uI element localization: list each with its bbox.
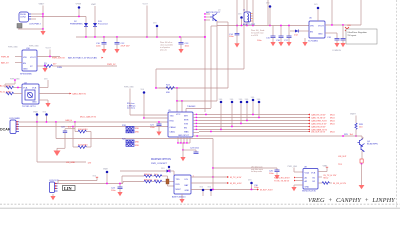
junction	[241, 25, 243, 27]
wire long lower bus	[56, 138, 213, 140]
capacitor C15	[257, 26, 276, 47]
svg-text:VCB: VCB	[311, 173, 316, 175]
wire	[360, 0, 362, 25]
svg-text:VCA: VCA	[23, 87, 28, 90]
svg-text:VREG + CANPHY + LINPHY: VREG + CANPHY + LINPHY	[308, 197, 396, 204]
svg-text:VBAT: VBAT	[103, 168, 109, 171]
opto U4	[22, 82, 39, 108]
U8 ground	[291, 185, 303, 191]
net label M_SLP	[257, 189, 259, 191]
svg-text:(see docs): (see docs)	[127, 108, 135, 110]
capacitor C16	[276, 25, 284, 47]
svg-text:VIN: VIN	[23, 57, 27, 59]
svg-text:LIN_GND: LIN_GND	[66, 162, 76, 164]
junction	[42, 13, 44, 15]
diode D13	[120, 163, 174, 175]
junction	[55, 121, 57, 123]
connector J1	[19, 12, 42, 26]
wire	[210, 26, 212, 108]
wire + resistor R33 + net label	[318, 182, 347, 185]
wire	[236, 0, 238, 26]
wire	[90, 132, 92, 148]
capacitor C24	[111, 183, 123, 197]
svg-text:COMMON: COMMON	[332, 50, 341, 52]
svg-text:GND: GND	[23, 69, 28, 71]
svg-text:GND: GND	[318, 34, 323, 36]
U7 ground	[179, 194, 184, 203]
wire	[31, 16, 43, 18]
diode D2	[70, 17, 88, 38]
svg-text:1/8W: 1/8W	[57, 67, 62, 69]
wire to Q4	[193, 135, 362, 137]
power symbol VS	[238, 14, 243, 26]
wire CAN_H	[19, 121, 168, 123]
junction on bundle	[205, 114, 207, 116]
svg-text:CAN_EN_M 5V: CAN_EN_M 5V	[311, 126, 326, 129]
wire	[252, 0, 254, 26]
wire	[37, 161, 86, 163]
svg-text:PWR_GND: PWR_GND	[124, 87, 134, 89]
node 5V0 label	[39, 78, 48, 87]
svg-text:VBATT: VBATT	[350, 112, 357, 115]
connector J3	[9, 117, 20, 134]
svg-text:5V0: 5V0	[238, 14, 241, 16]
svg-text:M_TX_H 5V: M_TX_H 5V	[230, 177, 242, 179]
junction	[74, 121, 76, 123]
resistor R36	[154, 179, 174, 183]
wire row2	[123, 181, 144, 183]
svg-text:LIN: LIN	[185, 179, 189, 181]
junction	[143, 117, 145, 119]
resistor R2 + net label	[0, 85, 22, 89]
wire VCCB up	[318, 164, 328, 171]
wire pin	[15, 62, 22, 64]
svg-text:5V0: 5V0	[219, 99, 222, 101]
svg-text:5V0: 5V0	[314, 4, 317, 6]
junction	[146, 36, 148, 38]
wire	[176, 88, 178, 101]
junction	[342, 24, 344, 26]
svg-text:to all ICB: to all ICB	[251, 34, 259, 37]
wire CAN_L	[19, 126, 168, 128]
svg-text:VOUT: VOUT	[30, 57, 37, 59]
power symbol VREG	[314, 4, 319, 21]
resistor R3 + net label	[0, 91, 22, 94]
op-amp U6 regulator	[308, 18, 325, 43]
svg-text:VCB: VCB	[32, 88, 37, 90]
wire	[42, 6, 44, 30]
junction	[246, 25, 248, 27]
wire bus2 right segment	[325, 24, 361, 26]
svg-text:5V0: 5V0	[257, 99, 260, 101]
svg-text:CANL: CANL	[170, 131, 176, 134]
MBR option jumpers	[122, 125, 140, 147]
svg-text:LIN: LIN	[64, 186, 73, 191]
split termination: resistor R17	[73, 127, 91, 149]
junction	[94, 36, 96, 38]
svg-text:5V0: 5V0	[141, 89, 144, 91]
svg-text:BAT_5V: BAT_5V	[1, 62, 9, 65]
junction	[155, 87, 157, 89]
capacitor C26	[269, 168, 280, 179]
wire	[227, 22, 229, 88]
svg-text:RX IN_RX_M 5V: RX IN_RX_M 5V	[274, 177, 290, 179]
svg-text:5V0: 5V0	[153, 23, 156, 25]
junction	[42, 16, 44, 18]
svg-text:47uF 25V: 47uF 25V	[121, 45, 131, 47]
inductor L1	[243, 0, 256, 26]
svg-text:CAN_RX_M 5V: CAN_RX_M 5V	[311, 114, 326, 117]
junction	[46, 121, 48, 123]
junction	[204, 36, 206, 38]
junction	[361, 163, 363, 165]
connector J2 LIN	[49, 180, 60, 193]
junction	[103, 36, 105, 38]
power symbol VBAT lin	[103, 168, 109, 185]
svg-text:Ultra/Drive Regulator: Ultra/Drive Regulator	[348, 31, 368, 34]
svg-text:CON 9WAY: CON 9WAY	[9, 117, 20, 120]
svg-text:FREEWHEEL: FREEWHEEL	[70, 23, 84, 25]
power symbol VBAT	[33, 111, 39, 123]
junction	[179, 36, 181, 38]
wire	[186, 108, 211, 110]
wire to gnd bus	[36, 122, 38, 162]
power dots bottom	[200, 187, 213, 197]
resistor R32 vertical	[162, 176, 174, 186]
svg-text:PWR_GND: PWR_GND	[288, 166, 298, 168]
LIN transceiver U7	[172, 175, 191, 199]
capacitor C21 on IC left	[150, 121, 162, 136]
svg-text:5V0: 5V0	[239, 99, 242, 101]
node PWR_GND mid	[124, 87, 134, 116]
junction	[42, 28, 44, 30]
svg-text:MASTER OPTION: MASTER OPTION	[151, 158, 171, 161]
svg-text:MCU: MCU	[330, 115, 335, 117]
no-fit cross	[345, 27, 349, 31]
svg-text:DCAR: DCAR	[0, 128, 11, 132]
svg-text:5V0: 5V0	[200, 187, 203, 189]
junction	[49, 56, 51, 58]
wire bus2 left segment	[211, 25, 217, 27]
power symbol VPWR	[76, 4, 82, 17]
wire	[18, 28, 43, 30]
svg-text:TXD: TXD	[176, 179, 181, 181]
op-amp U10 regulator	[20, 48, 37, 76]
svg-text:M_SLP_N 5V: M_SLP_N 5V	[260, 190, 273, 192]
svg-text:IN_RX_H 12V: IN_RX_H 12V	[333, 183, 347, 185]
svg-text:TXD: TXD	[170, 116, 175, 118]
resistor R31	[154, 174, 162, 178]
svg-text:5V layout: 5V layout	[348, 34, 357, 37]
capacitor C18	[325, 33, 341, 52]
power symbol 5V0	[153, 23, 158, 38]
svg-text:BC847BPN: BC847BPN	[367, 143, 378, 145]
svg-text:GND SPLIT: GND SPLIT	[178, 135, 190, 137]
power symbol 5V mid	[141, 89, 146, 118]
wire	[267, 0, 269, 26]
junction	[44, 65, 46, 67]
node PWR_GND label	[5, 78, 20, 87]
svg-text:pins (+5): pins (+5)	[160, 50, 167, 52]
svg-text:TL750M05: TL750M05	[308, 41, 319, 43]
junction	[176, 87, 178, 89]
wire	[361, 164, 363, 186]
svg-text:ASM TJA1020: ASM TJA1020	[172, 196, 186, 199]
net label row 7	[308, 131, 310, 133]
wire IC top pin	[176, 101, 178, 112]
svg-text:RXD: RXD	[176, 184, 181, 186]
diode D12	[290, 30, 309, 37]
svg-text:EN: EN	[184, 128, 187, 130]
svg-text:BAT_EXTRACT_5V MCU/CAN: BAT_EXTRACT_5V MCU/CAN	[68, 56, 97, 59]
power label 5V0	[58, 175, 98, 183]
resistor R35	[144, 179, 154, 183]
resistor R MBR	[159, 85, 180, 95]
split termination: resistor R16	[75, 122, 91, 133]
svg-text:MCU: MCU	[330, 121, 335, 123]
transistor Q4	[358, 136, 379, 152]
wire left pin	[130, 114, 168, 116]
svg-text:STB: STB	[184, 124, 189, 126]
node LIN label box	[63, 186, 76, 192]
wire left pin2	[144, 117, 168, 119]
net labels CAN bundle	[308, 114, 335, 132]
resistor R30	[144, 174, 154, 178]
svg-text:CANH: CANH	[170, 126, 176, 129]
svg-text:PWR_5V0 5V: PWR_5V0 5V	[52, 57, 65, 59]
junction	[181, 100, 183, 102]
wire	[156, 68, 244, 70]
junction	[78, 16, 80, 18]
wire + net label LIN_TX	[318, 175, 337, 179]
svg-text:CAN_TX_M 5V: CAN_TX_M 5V	[311, 117, 326, 120]
svg-text:ASM TL4242: ASM TL4242	[243, 23, 256, 26]
svg-text:VOUT: VOUT	[46, 48, 52, 50]
svg-text:CAN_H: CAN_H	[65, 119, 73, 122]
note text	[251, 30, 264, 37]
note text	[251, 166, 263, 174]
capacitor C19	[340, 25, 345, 47]
power symbol VCC	[266, 3, 271, 26]
svg-text:VCC: VCC	[176, 114, 181, 116]
svg-text:SPX3819M5: SPX3819M5	[20, 74, 33, 76]
capacitor C22	[54, 127, 76, 156]
wire	[49, 50, 51, 57]
svg-text:5V0: 5V0	[208, 187, 211, 189]
wire pin	[15, 56, 22, 58]
svg-text:WAK: WAK	[184, 131, 189, 134]
net label M_RX	[227, 182, 229, 184]
svg-text:5V0: 5V0	[266, 3, 269, 5]
svg-text:5V0: 5V0	[251, 97, 254, 99]
svg-text:M_RX_H 5V: M_RX_H 5V	[230, 183, 242, 185]
diode D11	[93, 6, 108, 37]
svg-text:GND: GND	[185, 190, 190, 192]
svg-text:5V0: 5V0	[245, 99, 248, 101]
power symbol 5V	[43, 112, 48, 123]
ground	[50, 194, 55, 200]
note text	[127, 103, 135, 110]
wire + net label RX	[274, 177, 303, 183]
wire VBAT top	[213, 167, 277, 169]
svg-text:PWR_GND: PWR_GND	[8, 47, 18, 49]
svg-text:VBAT: VBAT	[91, 3, 97, 6]
svg-text:MCU: MCU	[324, 178, 329, 180]
wire	[216, 26, 218, 101]
capacitor C17	[284, 25, 292, 47]
wire	[146, 6, 148, 38]
svg-text:TJA1043: TJA1043	[187, 105, 196, 108]
fuse F1	[360, 159, 363, 163]
svg-text:CON PWR 2: CON PWR 2	[29, 24, 42, 26]
svg-text:5V0: 5V0	[44, 78, 47, 80]
svg-text:PWR_IN: PWR_IN	[1, 57, 10, 59]
svg-text:VOUT: VOUT	[143, 4, 149, 6]
wire	[216, 22, 218, 26]
svg-text:VBAT: VBAT	[33, 111, 39, 114]
sheet border right dashed	[396, 0, 398, 209]
sheet border bottom edge strip	[0, 208, 400, 209]
wire + net label CAN_LIMIT	[39, 93, 70, 95]
signal bundle wires	[199, 115, 310, 132]
ground	[42, 66, 47, 72]
wire	[155, 69, 157, 88]
power symbol drops	[219, 97, 260, 130]
svg-text:5V0: 5V0	[43, 112, 46, 114]
ground	[39, 100, 51, 107]
pull-up resistor R28	[350, 112, 364, 136]
svg-text:CON2: CON2	[20, 17, 27, 19]
junction	[269, 25, 271, 27]
junction	[176, 100, 178, 102]
capacitor C13	[178, 37, 190, 53]
junction	[85, 36, 87, 38]
svg-text:Q1: Q1	[218, 10, 221, 12]
resistor R1	[37, 63, 117, 69]
junction	[116, 36, 118, 38]
capacitor C14	[229, 26, 240, 48]
wire U7 right pins	[191, 139, 257, 191]
junction	[36, 121, 38, 123]
svg-text:PWR_CONCEPT: PWR_CONCEPT	[151, 163, 168, 165]
svg-text:MCU: MCU	[330, 132, 335, 134]
capacitor C12	[114, 37, 130, 53]
wire	[331, 0, 333, 25]
svg-text:MCU: MCU	[330, 124, 335, 126]
wire	[37, 56, 60, 58]
transistor Q1	[204, 10, 228, 23]
svg-text:PWR_5V: PWR_5V	[107, 64, 116, 66]
svg-text:MCU: MCU	[330, 118, 335, 120]
svg-text:TX IN_TX_M 5V: TX IN_TX_M 5V	[274, 181, 290, 183]
svg-text:CAN_STB_N 5V: CAN_STB_N 5V	[311, 123, 327, 126]
svg-text:CAN_LIMIT 5V: CAN_LIMIT 5V	[72, 93, 87, 96]
junction	[72, 126, 74, 128]
svg-text:C23 100n: C23 100n	[190, 148, 200, 150]
svg-text:GND: GND	[32, 102, 37, 104]
wire upper row	[122, 175, 144, 177]
junction	[331, 24, 333, 26]
svg-text:VCA: VCA	[305, 172, 310, 175]
svg-text:LIN_SLP_N 5V: LIN_SLP_N 5V	[311, 132, 326, 134]
junction	[204, 36, 206, 38]
svg-text:5V0: 5V0	[248, 180, 251, 182]
svg-text:NSLP: NSLP	[176, 189, 182, 191]
svg-text:5V0: 5V0	[93, 175, 96, 177]
junction	[156, 36, 158, 38]
wire	[55, 122, 57, 139]
wire	[177, 100, 217, 102]
note text	[160, 42, 173, 52]
svg-text:EN: EN	[23, 63, 26, 65]
svg-text:ERR: ERR	[184, 120, 189, 122]
wire main bus VBATT	[76, 36, 205, 38]
svg-text:VIN: VIN	[310, 26, 314, 28]
wire	[361, 151, 363, 160]
svg-text:CAN_ERR_N 5V: CAN_ERR_N 5V	[311, 120, 327, 123]
svg-text:VBATT: VBATT	[39, 3, 46, 6]
svg-text:12V: 12V	[88, 162, 92, 164]
svg-text:VPWR: VPWR	[76, 4, 82, 6]
power symbol 5V0 mid	[248, 180, 259, 191]
CAN transceiver U5	[168, 105, 196, 137]
note box	[346, 29, 377, 44]
wire	[156, 87, 228, 89]
svg-text:RXD: RXD	[170, 121, 175, 123]
svg-text:D13: D13	[161, 168, 164, 170]
svg-text:GND: GND	[305, 187, 310, 189]
U5 right pin stubs	[193, 114, 199, 133]
wire IC top pin	[181, 101, 183, 112]
wire LIN bus	[58, 183, 124, 185]
svg-text:SN74LVC2T45: SN74LVC2T45	[302, 191, 317, 193]
ground	[40, 31, 45, 35]
sheet border bottom dashed	[0, 203, 400, 205]
node PWR_GND label	[288, 166, 304, 172]
svg-text:Freewheel: Freewheel	[98, 22, 108, 25]
svg-text:LIN_SLP: LIN_SLP	[338, 156, 347, 158]
wire	[43, 16, 86, 18]
net label M_TX	[227, 176, 229, 178]
mounting symbol M1	[17, 24, 22, 30]
capacitor C10	[96, 37, 107, 53]
svg-text:5V0: 5V0	[230, 99, 233, 101]
wire long vertical from bus1 corner	[204, 20, 206, 112]
svg-text:PWR_GND: PWR_GND	[29, 46, 39, 48]
ground	[302, 38, 307, 46]
svg-text:EN: EN	[310, 32, 313, 34]
svg-text:INH: INH	[184, 116, 188, 118]
ground	[359, 185, 365, 189]
wire	[31, 13, 43, 15]
svg-text:MCU_CAN_H 5V: MCU_CAN_H 5V	[80, 116, 97, 119]
U5 bottom pins	[177, 137, 200, 161]
svg-text:VOUT: VOUT	[318, 26, 325, 28]
wire	[243, 0, 245, 69]
svg-text:for deep mode: for deep mode	[251, 170, 262, 173]
junction	[252, 25, 254, 27]
svg-text:TLP185 OPTO: TLP185 OPTO	[22, 106, 36, 108]
level shifter U8	[302, 166, 318, 192]
